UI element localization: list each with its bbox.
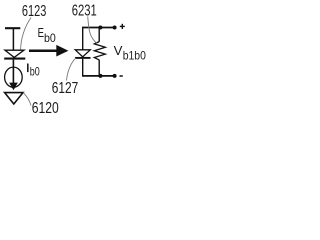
svg-text:b1b0: b1b0 xyxy=(123,49,146,63)
svg-text:V: V xyxy=(114,43,123,58)
svg-text:b0: b0 xyxy=(30,65,40,79)
svg-text:6231: 6231 xyxy=(72,2,97,19)
svg-text:6120: 6120 xyxy=(32,100,59,117)
svg-text:b0: b0 xyxy=(44,31,56,45)
svg-text:6127: 6127 xyxy=(52,80,79,97)
svg-text:6123: 6123 xyxy=(22,3,46,20)
